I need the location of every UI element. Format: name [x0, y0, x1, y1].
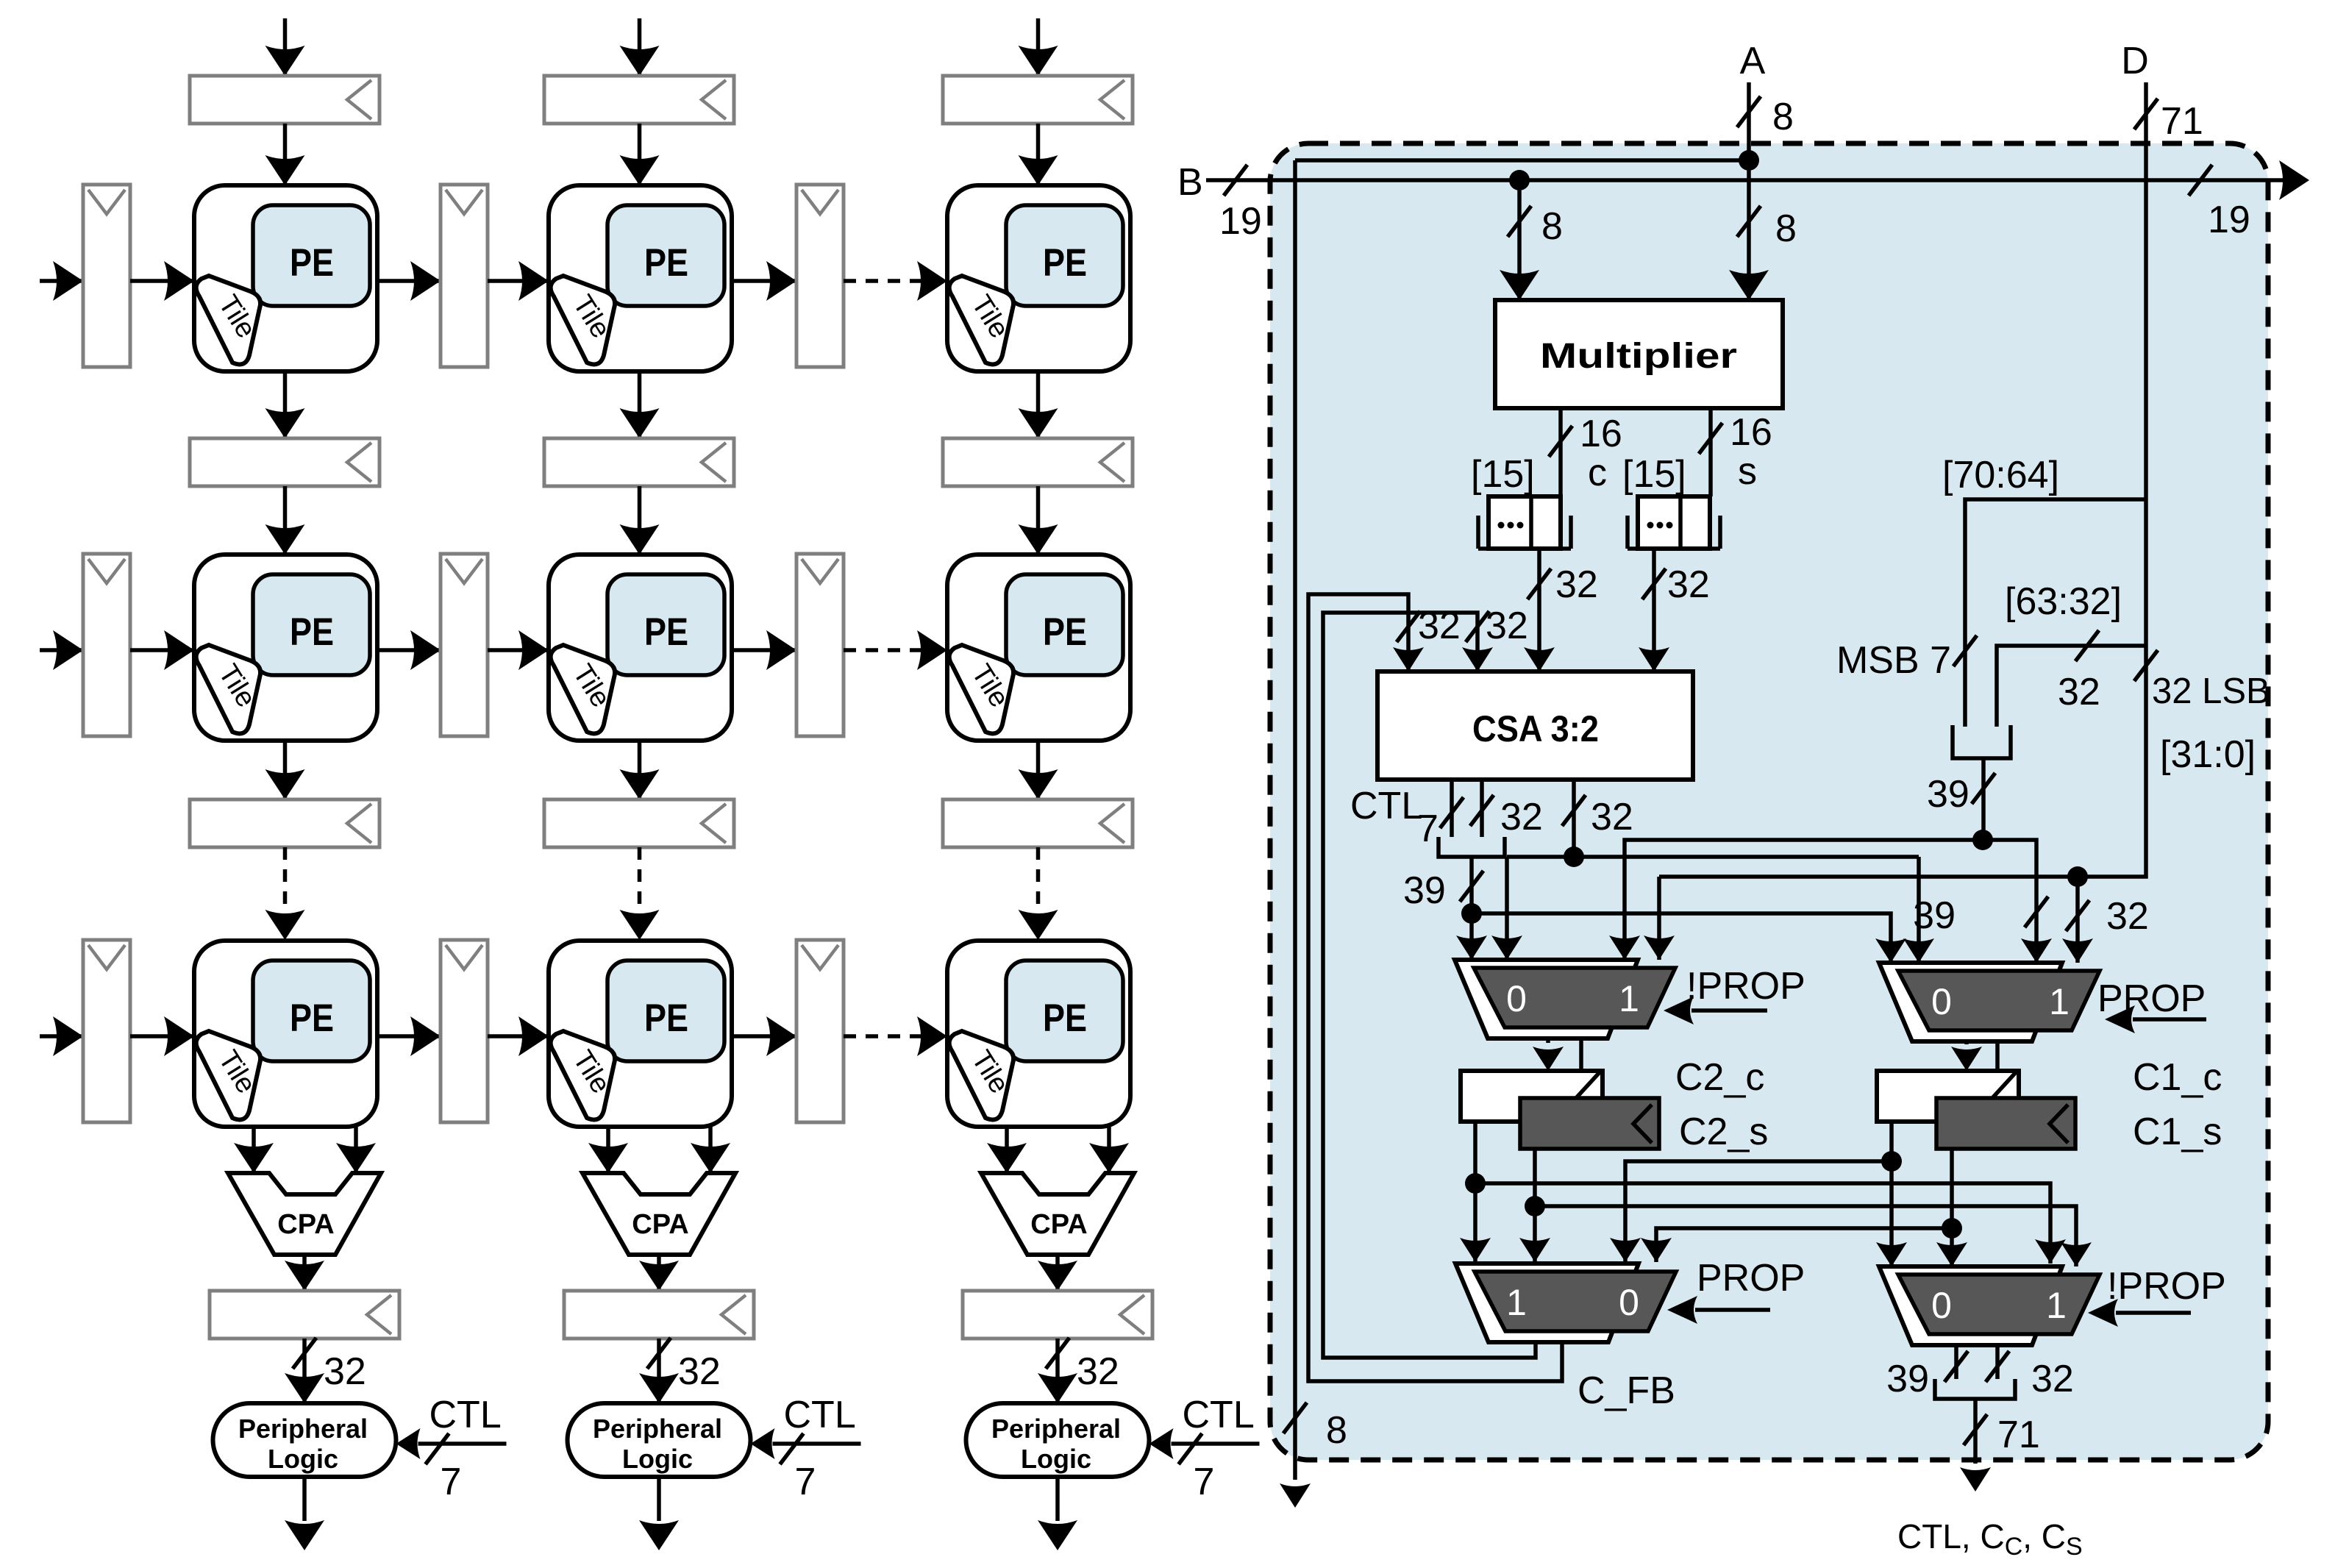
wire: column 2 reg to tile row2: [620, 486, 660, 555]
wire: row 1 dashed link to tile 3: [844, 261, 947, 301]
wire: upper-left mux outputs into C2 registers: [1533, 1038, 1597, 1097]
svg-text:!PROP: !PROP: [1686, 965, 1805, 1008]
label CTL, Cc, Cs: [1897, 1517, 2083, 1561]
wire: C_FB outer feedback loop (32): [1308, 594, 1562, 1381]
wire: D input down and [31:0] branch left: [1659, 82, 2270, 887]
wire: C1_s output to lower muxes: [1641, 1149, 1967, 1266]
wire: multiplier sum output (16): [1699, 408, 1772, 496]
node D (71-bit input): [2121, 40, 2149, 82]
svg-text:!PROP: !PROP: [2107, 1265, 2226, 1308]
label C1_c / C1_s: [2133, 1056, 2222, 1153]
svg-text:32: 32: [678, 1350, 721, 1393]
wire: multiplier carry output (16): [1549, 408, 1622, 496]
svg-text:[31:0]: [31:0]: [2160, 733, 2256, 776]
svg-text:CTL, CC, CS: CTL, CC, CS: [1897, 1517, 2083, 1561]
svg-text:[63:32]: [63:32]: [2005, 580, 2122, 623]
svg-text:1: 1: [2049, 981, 2070, 1022]
label [15] s: [1622, 450, 1757, 496]
svg-text:8: 8: [1772, 96, 1794, 138]
svg-text:39: 39: [1927, 773, 1969, 816]
register R_h11: [441, 185, 488, 367]
wire: row 1 reg to tile 1: [130, 261, 194, 301]
wire: !PROP select arrow (lower right mux): [2088, 1299, 2191, 1327]
register R_v13: [943, 438, 1133, 486]
wire: column 2 dashed link to tile row3: [620, 847, 660, 940]
svg-text:32: 32: [324, 1350, 366, 1393]
wire: CTL 7-bit input to Peripheral Logic 3: [1149, 1394, 1260, 1503]
PE datapath panel (dashed border, light blue): [1270, 143, 2268, 1460]
block CSA 3:2: [1377, 671, 1693, 780]
wire: Peripheral Logic 2 output arrow: [639, 1477, 679, 1550]
register R_v12: [544, 438, 734, 486]
svg-text:s: s: [1738, 450, 1757, 493]
register R_h22: [796, 554, 844, 736]
wire: tile32 outputs into CPA: [588, 1127, 730, 1173]
register R_v23: [943, 799, 1133, 847]
mux M1 (upper right, PROP): [1879, 963, 2100, 1041]
svg-text:1: 1: [1506, 1282, 1527, 1323]
wire: tile33 outputs into CPA: [987, 1127, 1129, 1173]
svg-text:7: 7: [795, 1461, 816, 1503]
svg-text:7: 7: [1194, 1461, 1215, 1503]
wire: column 1 dashed link to tile row3: [265, 847, 305, 940]
adder CPA2: [582, 1173, 735, 1255]
svg-text:0: 0: [1619, 1282, 1639, 1323]
PE tile (1,1): [194, 185, 377, 371]
register R_v22: [544, 799, 734, 847]
svg-text:MSB 7: MSB 7: [1836, 639, 1951, 682]
register R_out1: [210, 1291, 399, 1339]
wire: column 3 top input arrow: [1019, 18, 1058, 76]
wire: column 3 tile1 to reg: [1019, 371, 1058, 438]
mux M4 (lower left, PROP): [1455, 1264, 1676, 1342]
wire: B branch down to Multiplier: [1500, 180, 1563, 300]
svg-text:32: 32: [1486, 605, 1528, 647]
svg-text:CTL: CTL: [1183, 1394, 1255, 1436]
wire: row 3 tile1 to reg: [377, 1016, 441, 1056]
wire: CPA1 output: [285, 1255, 324, 1291]
wire: column 1 tile2 to reg: [265, 741, 305, 799]
svg-text:32: 32: [1500, 796, 1543, 838]
PE tile (2,2): [549, 555, 732, 741]
PE tile (3,2): [549, 941, 732, 1127]
label 32 32 on feedback inputs: [1418, 605, 1528, 647]
concat merge {CTL,CSA_s}: [1439, 837, 1505, 857]
wire: 32-bit result into Peripheral Logic 2: [639, 1338, 721, 1403]
shift register (sum path): [1628, 496, 1720, 549]
block Multiplier: [1495, 300, 1783, 408]
register C1_c: [1877, 1071, 2019, 1122]
wire: row 1 tile1 to reg: [377, 261, 441, 301]
svg-text:32: 32: [1077, 1350, 1119, 1393]
svg-text:39: 39: [1403, 869, 1446, 912]
svg-text:8: 8: [1326, 1409, 1347, 1452]
svg-text:32: 32: [1591, 796, 1633, 838]
wire: row 1 reg to tile 2: [488, 261, 549, 301]
wire: column 2 top input arrow: [620, 18, 660, 76]
register R_v01 (top column register): [190, 76, 379, 124]
register R_h10 (input row register): [83, 185, 130, 367]
PE tile (3,1): [194, 941, 377, 1127]
register R_v02 (top column register): [544, 76, 734, 124]
wire: column 1 reg to tile row2: [265, 486, 305, 555]
wire: row 2 tile1 to reg: [377, 630, 441, 670]
wire: CSA sum output (32) into concat: [1470, 780, 1543, 838]
wire: column 1 reg to tile row1: [265, 124, 305, 185]
wire: CPA3 output: [1038, 1255, 1077, 1291]
label C2_c / C2_s: [1675, 1056, 1768, 1153]
wire: C2_s output to lower muxes: [1519, 1149, 2092, 1266]
wire: 39-bit {CTL,s} bus to both upper muxes: [1403, 857, 1906, 963]
svg-text:[15]: [15]: [1622, 453, 1686, 496]
svg-text:19: 19: [2208, 199, 2250, 241]
register C2_c: [1461, 1071, 1603, 1122]
svg-text:0: 0: [1931, 981, 1952, 1022]
wire: row 3 dashed link to tile 3: [844, 1016, 947, 1056]
block Peripheral Logic 3: [966, 1403, 1149, 1477]
wire: row 2 tile2 to reg: [732, 630, 796, 670]
svg-text:32: 32: [2106, 895, 2149, 938]
wire: column 2 tile2 to reg: [620, 741, 660, 799]
wire: 32-bit D[31:0] to both upper muxes: [1644, 877, 2149, 963]
wire: CTL 7-bit input to Peripheral Logic 1: [396, 1394, 507, 1503]
adder CPA1: [228, 1173, 381, 1255]
svg-text:32: 32: [1555, 563, 1598, 606]
register R_out3: [963, 1291, 1152, 1339]
svg-text:PROP: PROP: [1697, 1257, 1805, 1300]
wire: row 3 horizontal input arrow: [40, 1016, 83, 1056]
wire: sum shifter to CSA (32): [1639, 549, 1710, 671]
node A (8-bit input): [1740, 40, 1766, 82]
wire: CSA carry output (32) to both upper muxes: [1491, 780, 1934, 963]
svg-text:32: 32: [1667, 563, 1710, 606]
wire: column 3 tile2 to reg: [1019, 741, 1058, 799]
wire: row 2 reg to tile 2: [488, 630, 549, 670]
register R_v11: [190, 438, 379, 486]
PE tile (2,3): [947, 555, 1130, 741]
register R_h12: [796, 185, 844, 367]
label [15] c: [1471, 452, 1607, 496]
wire: D[63:32] branch: [1997, 580, 2146, 727]
label PROP (upper right mux select): [2097, 977, 2206, 1020]
svg-text:71: 71: [2161, 100, 2203, 143]
register R_h32: [796, 940, 844, 1122]
wire: CPA2 output: [639, 1255, 679, 1291]
wire: row 3 reg to tile 1: [130, 1016, 194, 1056]
svg-text:CSA 3:2: CSA 3:2: [1472, 708, 1599, 749]
wire: B bus left-to-right: [1206, 160, 2309, 243]
register R_h21: [441, 554, 488, 736]
svg-text:PROP: PROP: [2097, 977, 2206, 1020]
wire: C2_c output to lower muxes: [1460, 1122, 2066, 1264]
wire: row 3 tile2 to reg: [732, 1016, 796, 1056]
svg-text:8: 8: [1541, 205, 1563, 248]
wire: PROP select arrow (upper right mux): [2105, 1005, 2206, 1033]
node B (19-bit bus through PE): [1177, 161, 1203, 204]
wire: A feedback line across top: [1295, 150, 1759, 171]
wire: C_FB inner feedback loop (32): [1323, 611, 1536, 1358]
svg-text:c: c: [1588, 452, 1607, 494]
wire: CTL 7-bit input to Peripheral Logic 2: [751, 1394, 861, 1503]
register R_h30 (input row register): [83, 940, 130, 1122]
wire: Peripheral Logic 1 output arrow: [285, 1477, 324, 1550]
mux M2 (upper left, !PROP): [1455, 960, 1675, 1038]
svg-text:Multiplier: Multiplier: [1540, 337, 1737, 376]
block Peripheral Logic 2: [568, 1403, 751, 1477]
wire: row 2 dashed link to tile 3: [844, 630, 947, 670]
svg-text:CTL: CTL: [1350, 785, 1422, 827]
wire: column 3 reg to tile row2: [1019, 486, 1058, 555]
wire: row 1 horizontal input arrow: [40, 261, 83, 301]
PE tile (1,3): [947, 185, 1130, 371]
wire: PROP select arrow (lower left mux): [1667, 1296, 1770, 1324]
svg-text:39: 39: [1886, 1358, 1929, 1400]
svg-text:C1_s: C1_s: [2133, 1111, 2222, 1153]
svg-text:7: 7: [1417, 808, 1439, 850]
svg-text:C2_c: C2_c: [1675, 1056, 1764, 1099]
wire: column 3 dashed link to tile row3: [1019, 847, 1058, 940]
register C2_s (dark): [1520, 1098, 1659, 1149]
wire: column 1 tile1 to reg: [265, 371, 305, 438]
label PROP (lower left mux select): [1697, 1257, 1805, 1300]
wire: column 3 reg to tile row1: [1019, 124, 1058, 185]
PE tile (2,1): [194, 555, 377, 741]
PE tile (1,2): [549, 185, 732, 371]
label !PROP (upper left mux select): [1686, 965, 1805, 1008]
wire: row 2 horizontal input arrow: [40, 630, 83, 670]
wire: C1_c output to lower muxes: [1610, 1122, 1907, 1266]
svg-text:0: 0: [1506, 978, 1527, 1019]
svg-text:[70:64]: [70:64]: [1942, 454, 2059, 496]
wire: D[70:64] branch: [1836, 454, 2146, 727]
wire: 71-bit output CTL,Cc,Cs: [1960, 1399, 2040, 1492]
svg-text:D: D: [2121, 40, 2149, 82]
svg-text:1: 1: [2046, 1285, 2067, 1326]
wire: column 2 reg to tile row1: [620, 124, 660, 185]
wire: row 1 tile2 to reg: [732, 261, 796, 301]
svg-text:71: 71: [1997, 1414, 2040, 1456]
svg-text:32: 32: [1418, 605, 1461, 647]
wire: !PROP select arrow (upper left mux): [1664, 997, 1767, 1024]
wire: lower-right mux outputs (39,32): [1886, 1345, 2074, 1400]
svg-text:CTL: CTL: [784, 1394, 856, 1436]
shift register (carry path): [1478, 496, 1571, 549]
wire: carry shifter to CSA (32): [1524, 549, 1598, 671]
register R_v21: [190, 799, 379, 847]
svg-text:16: 16: [1580, 413, 1622, 455]
svg-text:C2_s: C2_s: [1679, 1111, 1768, 1153]
wire: 39-bit D bus to both upper muxes: [1609, 840, 2052, 963]
svg-text:19: 19: [1219, 200, 1262, 243]
svg-text:32 LSB: 32 LSB: [2152, 671, 2270, 711]
wire: row 3 reg to tile 2: [488, 1016, 549, 1056]
svg-text:8: 8: [1775, 207, 1797, 250]
wire: column 1 top input arrow: [265, 18, 305, 76]
PE tile (3,3): [947, 941, 1130, 1127]
label C_FB: [1578, 1369, 1675, 1412]
wire: upper-right mux outputs into C1 registers: [1951, 1041, 2013, 1097]
block Peripheral Logic 1: [213, 1403, 396, 1477]
wire: A input down to Multiplier: [1729, 82, 1797, 300]
concat merge {[70:64],[63:32]}: [1953, 725, 2011, 758]
svg-text:B: B: [1177, 161, 1203, 204]
svg-text:[15]: [15]: [1471, 453, 1535, 496]
wire: 39-bit merged D field: [1927, 758, 1995, 850]
wire: row 2 reg to tile 1: [130, 630, 194, 670]
svg-text:A: A: [1740, 40, 1766, 82]
svg-text:0: 0: [1931, 1285, 1952, 1326]
register C1_s (dark): [1936, 1098, 2075, 1149]
register R_h31: [441, 940, 488, 1122]
wire: A pass-through down left side, 8-bit exit: [1280, 160, 1347, 1508]
wire: Peripheral Logic 3 output arrow: [1038, 1477, 1077, 1550]
svg-text:1: 1: [1619, 978, 1639, 1019]
mux M3 (lower right, !PROP): [1879, 1266, 2100, 1345]
svg-text:32: 32: [2031, 1358, 2074, 1400]
wire: 32-bit result into Peripheral Logic 1: [285, 1338, 366, 1403]
wire: column 2 tile1 to reg: [620, 371, 660, 438]
wire: tile31 outputs into CPA: [234, 1127, 376, 1173]
wire: CTL 7-bit into concat: [1350, 780, 1464, 850]
wire: 32-bit result into Peripheral Logic 3: [1038, 1338, 1119, 1403]
svg-text:7: 7: [441, 1461, 462, 1503]
adder CPA3: [981, 1173, 1134, 1255]
register R_h20 (input row register): [83, 554, 130, 736]
register R_v03 (top column register): [943, 76, 1133, 124]
register R_out2: [564, 1291, 754, 1339]
svg-text:CTL: CTL: [429, 1394, 502, 1436]
svg-text:C_FB: C_FB: [1578, 1369, 1675, 1412]
svg-text:C1_c: C1_c: [2133, 1056, 2222, 1099]
svg-text:32: 32: [2058, 671, 2100, 713]
svg-text:16: 16: [1730, 411, 1772, 454]
label !PROP (lower right mux select): [2107, 1265, 2226, 1308]
concat merge {39,32} output: [1935, 1379, 2015, 1399]
